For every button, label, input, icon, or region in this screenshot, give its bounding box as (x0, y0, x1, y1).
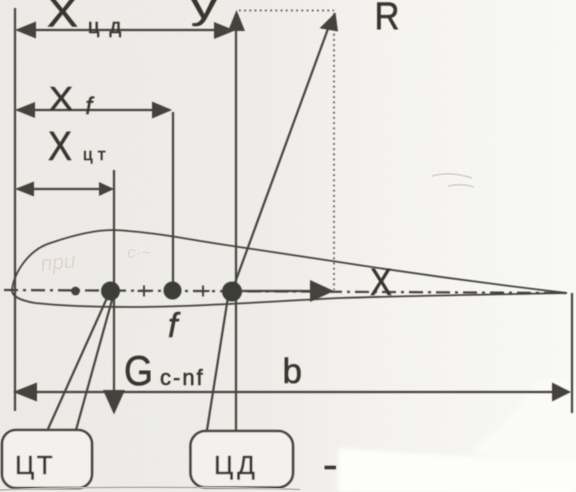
y axis (235, 14, 237, 430)
svg-text:цд: цд (88, 16, 131, 38)
arrow G down (103, 390, 125, 415)
svg-text:R: R (375, 0, 400, 38)
dotted projection vertical (333, 13, 335, 290)
chord dash-dot line (4, 290, 568, 293)
svg-text:Х: Х (48, 123, 72, 169)
arrowheads (13, 10, 571, 415)
leader line to CT box (left) (48, 298, 107, 429)
point CD (222, 282, 242, 302)
svg-text:у: у (191, 0, 218, 27)
CT callout box (2, 430, 92, 488)
CT vertical line + G force line (113, 170, 115, 410)
right reference line (571, 293, 573, 413)
arrow X_f right (152, 102, 172, 119)
point f (164, 282, 182, 300)
leader line to CT box (right) (76, 300, 112, 430)
svg-text:G: G (124, 347, 153, 394)
point CT (101, 282, 120, 301)
dotted projection horizontal (239, 10, 334, 12)
CD callout box (191, 431, 294, 488)
arrow R (320, 13, 339, 32)
arrow b right (552, 383, 571, 402)
focus vertical line (172, 112, 174, 285)
arrow X_f left (15, 102, 35, 118)
svg-text:цт: цт (83, 145, 111, 164)
airfoil outline (12, 230, 567, 307)
svg-text:Х: Х (47, 0, 78, 36)
svg-text:ЦТ: ЦТ (15, 450, 55, 480)
svg-text:c·~: c·~ (127, 243, 151, 262)
arrow X_cd right (214, 22, 235, 39)
dimension line X_cd (17, 29, 232, 31)
arrow X_ct left (15, 182, 34, 197)
dimension line X_f (17, 109, 170, 111)
svg-text:c-nf: c-nf (160, 365, 205, 390)
svg-text:при: при (40, 249, 77, 276)
svg-text:b: b (283, 352, 302, 391)
arrow X axis (310, 280, 334, 302)
dash after CD box (325, 466, 337, 470)
small dot on chord left of CT (71, 287, 80, 296)
svg-text:ЦД: ЦД (214, 450, 259, 480)
arrow X_ct right (99, 182, 114, 196)
svg-text:Х: Х (49, 80, 73, 117)
X axis shaft (238, 290, 324, 292)
arrow X_cd left (15, 22, 36, 39)
svg-text:X: X (370, 262, 392, 304)
arrow b left (13, 383, 37, 402)
plus tick 2 on chord (197, 286, 210, 297)
arrow y-axis up (228, 10, 245, 31)
dimension line X_ct (17, 188, 112, 190)
left reference line (14, 8, 16, 411)
dimension line b (15, 391, 568, 393)
R force line (232, 26, 329, 291)
faint pink annotation inside airfoil (39, 240, 153, 276)
leader line to CD box (slanted) (207, 297, 228, 430)
plus tick 1 on chord (138, 286, 151, 297)
